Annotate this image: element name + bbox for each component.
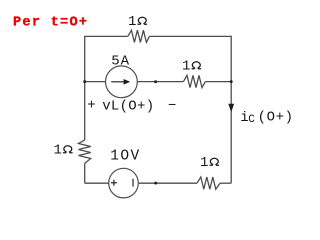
current source I1 arrow shaft [111,81,124,83]
svg-text:−: − [168,98,176,114]
capacitor current arrow head iC [228,104,234,113]
junction node A (left) [83,80,86,83]
svg-text:1: 1 [200,155,208,171]
voltage source V1 10V circle [109,168,139,198]
voltage source V1 plus terminal [111,180,117,186]
svg-text:C: C [248,114,255,126]
wire top side left segment [85,35,128,37]
svg-text:1: 1 [128,14,136,30]
wire left vertical lower [84,163,86,183]
label R1 value ohm glyph [138,17,148,24]
resistor R1 1ohm top zigzag [128,30,150,42]
wire middle from resistor R2 to right node [205,81,231,83]
wire bottom from left corner to voltage source [85,182,109,184]
resistor R4 1ohm left vertical zigzag [79,140,91,164]
svg-text:Per t=O+: Per t=O+ [13,16,88,31]
wire right vertical [230,36,232,183]
svg-text:1: 1 [54,142,62,158]
voltage source V1 minus terminal bar [132,179,134,187]
svg-text:1OV: 1OV [110,149,140,165]
label R4 value ohm glyph [63,146,73,153]
label R3 value ohm glyph [210,158,220,165]
svg-text:(O+): (O+) [258,109,294,125]
node dot on middle wire [154,80,157,83]
current source I1 arrow head [124,79,131,85]
label R2 value ohm glyph [192,62,202,69]
svg-text:1: 1 [182,58,190,74]
svg-text:vL(O+): vL(O+) [102,98,154,114]
wire bottom from voltage source to node dot [139,182,197,184]
wire middle from current source to node dot [138,81,184,83]
wire top side right segment [149,35,231,37]
wire bottom from resistor R3 to right corner [220,182,231,184]
resistor R2 1ohm middle zigzag [183,75,205,87]
current source I1 5A circle [106,66,138,98]
wire middle from left node to current source [85,81,106,83]
svg-text:5A: 5A [111,53,130,69]
junction node B (right) [230,80,233,83]
node dot on bottom wire [154,182,157,185]
resistor R3 1ohm bottom zigzag [197,177,220,189]
wire left vertical upper [84,36,86,140]
svg-text:+: + [87,97,95,113]
